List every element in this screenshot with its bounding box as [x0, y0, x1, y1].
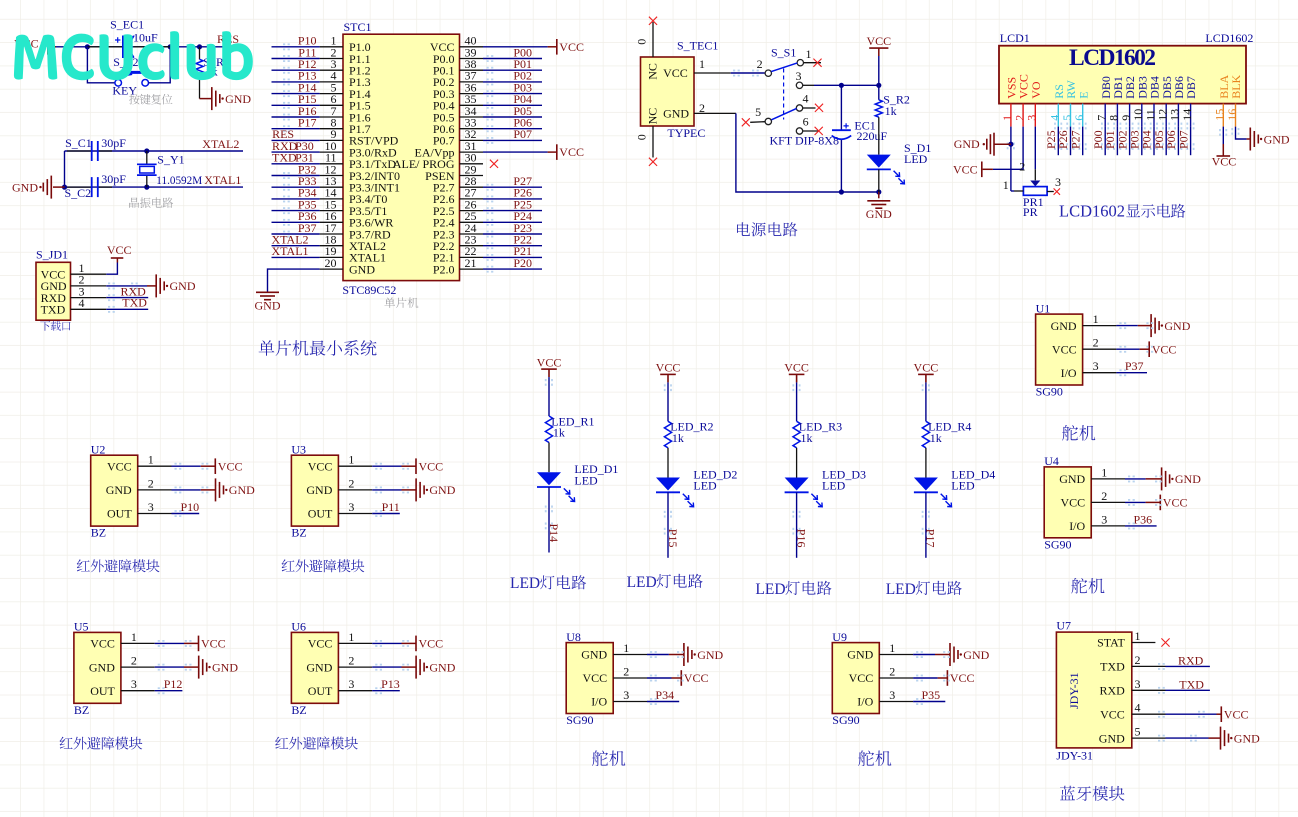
svg-text:GND: GND [697, 648, 723, 662]
erc marks U8 [650, 675, 652, 677]
svg-text:P16: P16 [794, 529, 808, 548]
svg-text:VCC: VCC [218, 459, 243, 473]
svg-text:2: 2 [1101, 489, 1107, 503]
pin 0 bottom (S_TEC1) [652, 126, 654, 158]
pin 2 S_JD1 [71, 285, 107, 287]
svg-text:U4: U4 [1044, 454, 1059, 468]
title 蓝牙模块 [1060, 786, 1124, 801]
erc marks U6 [375, 640, 377, 642]
wire U8 net P34 [647, 701, 679, 703]
svg-text:VCC: VCC [1061, 496, 1086, 510]
svg-text:2: 2 [131, 654, 137, 668]
svg-text:U5: U5 [74, 620, 89, 634]
svg-text:GND: GND [1234, 731, 1260, 745]
ground GND (crystal) [53, 186, 65, 188]
lcd LCD1 body [999, 46, 1246, 104]
svg-text:3: 3 [796, 69, 802, 83]
wire U3 GND [372, 489, 401, 491]
resistor LED_R3 [793, 421, 800, 448]
pin 1 U1 [1083, 325, 1117, 327]
svg-text:VCC: VCC [784, 361, 809, 375]
resistor LED_R1 [545, 416, 552, 443]
wire mcu pin13 net P33 [283, 184, 285, 186]
svg-text:GND: GND [1164, 319, 1190, 333]
wire mcu pin2 net P11 [283, 55, 285, 57]
annotation 单片机 [384, 297, 418, 308]
wire lcd pin10 net P03 [1138, 123, 1140, 125]
wire mcu net P21 [487, 254, 489, 256]
svg-text:LCD1: LCD1 [1000, 31, 1030, 45]
pin 3 U1 [1083, 372, 1117, 374]
pin 2 U5 [121, 666, 155, 668]
no-connect X s_s1 pin1 [813, 59, 821, 67]
svg-text:VO: VO [1029, 81, 1043, 99]
wire mcu pin1 net P10 [283, 43, 285, 45]
wire mcu pin14 net P34 [283, 196, 285, 198]
pin 1 U5 [121, 642, 155, 644]
resistor S_R2 [875, 100, 882, 117]
wire mcu net P04 [487, 102, 489, 104]
svg-text:P07: P07 [1176, 130, 1190, 149]
wire lcd pin11 net P04 [1150, 123, 1152, 125]
svg-text:1k: 1k [930, 431, 942, 445]
svg-text:VCC: VCC [663, 66, 688, 80]
wire mcu pin31 VCC [483, 151, 548, 153]
title 红外避障模块 (U5) [60, 737, 143, 750]
title 舵机 (U9) [858, 751, 891, 767]
pin 4 U7 [1132, 713, 1166, 715]
mcu pin 25 line [460, 221, 484, 223]
wire lcd pin5 net P26 [1066, 123, 1068, 125]
lcd pin 16 stub [1235, 104, 1237, 127]
title 舵机 (U8) [592, 751, 625, 767]
wire mcu net P00 [487, 55, 489, 57]
resistor LED_R2 [664, 421, 671, 448]
connector S_TEC1 body [641, 57, 695, 126]
mcu pin 15 line [320, 210, 343, 212]
svg-text:JDY-31: JDY-31 [1067, 672, 1081, 709]
svg-text:2: 2 [889, 665, 895, 679]
lcd pin 6 stub [1082, 104, 1084, 127]
pin 2 S_TEC1 [694, 112, 736, 114]
wire lcd pin13 net P06 [1174, 123, 1176, 125]
wire vcc to LED_R2 [664, 384, 666, 386]
wire XTAL2 row [65, 150, 244, 152]
wire JD1 pin3 RXD [108, 294, 110, 296]
mcu pin 12 line [320, 175, 343, 177]
svg-text:P10: P10 [181, 500, 200, 514]
svg-text:11.0592M: 11.0592M [156, 175, 202, 187]
svg-text:GND: GND [1051, 319, 1077, 333]
pin 1 U2 [138, 465, 172, 467]
svg-text:4: 4 [1135, 701, 1141, 715]
svg-text:SG90: SG90 [1044, 537, 1071, 551]
junction C3 [839, 189, 844, 194]
crystal S_Y1 [146, 151, 148, 164]
svg-text:I/O: I/O [1069, 519, 1085, 533]
wire mcu net P26 [487, 196, 489, 198]
wire lcd pin8 net P01 [1113, 123, 1115, 125]
svg-text:P2.0: P2.0 [433, 262, 455, 276]
svg-text:3: 3 [348, 677, 354, 691]
svg-text:S_C1: S_C1 [65, 136, 92, 150]
svg-text:NC: NC [645, 108, 659, 125]
svg-text:GND: GND [170, 279, 196, 293]
mcu pin 1 line [320, 46, 343, 48]
wire U7 GND [1166, 737, 1209, 739]
svg-text:LCD1602: LCD1602 [1205, 31, 1253, 45]
wire mcu pin12 net P32 [283, 172, 285, 174]
svg-text:GND: GND [89, 660, 115, 674]
wire vcc to LED_R3 [792, 384, 794, 386]
svg-text:1: 1 [806, 47, 812, 61]
svg-text:1k: 1k [553, 426, 565, 440]
svg-text:6: 6 [803, 115, 809, 129]
wire tec pin1 to switch [733, 70, 735, 72]
svg-text:TXD: TXD [41, 303, 66, 317]
wire U2 VCC [172, 465, 201, 467]
svg-text:LED: LED [574, 473, 598, 487]
pin 2 U6 [338, 666, 372, 668]
svg-text:OUT: OUT [107, 507, 132, 521]
mcu pin 35 line [460, 104, 484, 106]
wire LED_D2 net P15 [664, 511, 666, 513]
wire RES net top rail [56, 46, 240, 48]
wire mcu pin5 net P14 [283, 90, 285, 92]
mcu pin 24 line [460, 233, 484, 235]
svg-text:220uF: 220uF [857, 129, 888, 143]
capacitor S_EC1 [87, 46, 123, 48]
svg-text:VCC: VCC [419, 459, 444, 473]
svg-text:RXD: RXD [1178, 653, 1204, 667]
svg-text:E: E [1076, 91, 1090, 98]
svg-text:VCC: VCC [1212, 154, 1237, 168]
lcd pin 5 stub [1070, 104, 1072, 127]
svg-text:TXD: TXD [122, 296, 147, 310]
lcd pin 13 stub [1177, 104, 1179, 127]
erc marks U9 [916, 675, 918, 677]
wire r2 to led [878, 117, 880, 154]
wire JD1 pin4 TXD [108, 306, 110, 308]
svg-text:GND: GND [106, 483, 132, 497]
connector S_JD1 body [36, 262, 71, 320]
svg-text:GND: GND [429, 483, 455, 497]
erc marks U2 [175, 463, 177, 465]
lcd pin 15 stub [1222, 104, 1224, 127]
mcu pin 26 line [460, 210, 484, 212]
title 红外避障模块 (U2) [77, 559, 160, 572]
svg-text:1: 1 [348, 453, 354, 467]
svg-text:GND: GND [225, 92, 251, 106]
svg-text:P31: P31 [295, 151, 314, 165]
diode LED_D3 LED [785, 478, 809, 491]
svg-text:2: 2 [623, 665, 629, 679]
mcu pin 31 line [460, 151, 484, 153]
resistor LED_R4 [922, 421, 929, 448]
wire mcu RXD P30 [272, 151, 320, 153]
svg-text:3: 3 [148, 500, 154, 514]
wire lcd pin14 net P07 [1186, 123, 1188, 125]
pin 5 U7 [1132, 737, 1166, 739]
pin 3 U6 [338, 690, 372, 692]
wire mcu XTAL2 net [272, 245, 320, 247]
wire U6 net P13 [372, 690, 400, 692]
svg-text:GND: GND [1099, 731, 1125, 745]
svg-text:OUT: OUT [308, 507, 333, 521]
module U9 body [832, 643, 879, 714]
wire crystal left vertical [64, 151, 66, 187]
power VCC (LED_R3) [789, 373, 805, 375]
svg-text:LCD1602: LCD1602 [1069, 45, 1156, 71]
pin 2 U8 [613, 677, 647, 679]
junction C2 [876, 83, 881, 88]
title 舵机 (U1) [1062, 425, 1095, 441]
module U6 body [291, 632, 338, 703]
svg-text:S_TEC1: S_TEC1 [677, 38, 718, 52]
svg-text:P07: P07 [513, 127, 532, 141]
svg-text:OUT: OUT [90, 684, 115, 698]
wire mcu pin4 net P13 [283, 79, 285, 81]
wire mcu pin6 net P15 [283, 102, 285, 104]
pin 3 U3 [338, 513, 372, 515]
svg-text:P14: P14 [547, 524, 561, 543]
pin 2 U2 [138, 489, 172, 491]
svg-text:GND: GND [212, 660, 238, 674]
mcu pin 38 line [460, 69, 484, 71]
svg-text:VCC: VCC [583, 671, 608, 685]
wire JD1 pin2 to GND [108, 283, 110, 285]
mcu pin 17 line [320, 233, 343, 235]
svg-text:3: 3 [1101, 512, 1107, 526]
svg-text:I/O: I/O [1061, 366, 1077, 380]
svg-text:1: 1 [623, 641, 629, 655]
title 红外避障模块 (U3) [282, 559, 365, 572]
wire LED_R2 to LED_D2 [667, 448, 669, 478]
wire mcu net P07 [487, 137, 489, 139]
lcd pin 11 stub [1153, 104, 1155, 127]
svg-text:TYPEC: TYPEC [667, 126, 705, 140]
svg-text:XTAL2: XTAL2 [202, 137, 239, 151]
wire U9 VCC [913, 677, 938, 679]
svg-text:GND: GND [954, 137, 980, 151]
mcu pin 4 line [320, 81, 343, 83]
svg-text:P37: P37 [1125, 359, 1144, 373]
title 电源电路 [737, 222, 797, 236]
svg-text:GND: GND [306, 660, 332, 674]
wire pin3 rail [803, 84, 814, 86]
svg-text:0: 0 [635, 39, 649, 45]
diode LED_D2 LED [656, 478, 680, 491]
pin 1 S_TEC1 [694, 72, 731, 74]
ground GND (lcd) [994, 143, 1011, 145]
svg-text:5: 5 [1135, 725, 1141, 739]
pin 3 U8 [613, 701, 647, 703]
wire U7 TXD [1166, 689, 1210, 691]
wire mcu pin8 net P17 [283, 125, 285, 127]
wire U3 VCC [372, 465, 401, 467]
wire mcu net P03 [487, 90, 489, 92]
svg-text:GND: GND [1264, 132, 1290, 146]
wire mcu pin7 net P16 [283, 114, 285, 116]
module U5 body [74, 632, 121, 703]
wire mcu pin17 net P37 [283, 231, 285, 233]
svg-text:OUT: OUT [308, 684, 333, 698]
svg-text:GND: GND [255, 298, 281, 312]
svg-text:16: 16 [1225, 109, 1239, 121]
mcu pin 9 line [320, 139, 343, 141]
pin 1 U6 [338, 642, 372, 644]
mcu pin 13 line [320, 186, 343, 188]
pin 3 S_JD1 [71, 297, 107, 299]
wire lcd pin3 to wiper [1034, 127, 1036, 170]
lcd pin 14 stub [1190, 104, 1192, 127]
svg-text:VCC: VCC [849, 671, 874, 685]
wire U5 GND [155, 666, 184, 668]
title 舵机 (U4) [1071, 578, 1104, 594]
mcu pin 20 line [320, 268, 343, 270]
svg-text:3: 3 [1025, 115, 1039, 121]
module U3 body [291, 455, 338, 526]
wire mcu net P05 [487, 114, 489, 116]
wire U8 GND [647, 654, 669, 656]
svg-text:1: 1 [699, 57, 705, 71]
svg-text:P17: P17 [924, 529, 938, 548]
svg-text:4: 4 [803, 92, 809, 106]
svg-text:3: 3 [348, 500, 354, 514]
mcu pin 27 line [460, 198, 484, 200]
pin 1 U4 [1091, 478, 1125, 480]
svg-text:LED: LED [904, 152, 928, 166]
module U2 body [91, 455, 138, 526]
svg-text:VCC: VCC [559, 145, 584, 159]
wire LED_R3 to LED_D3 [796, 448, 798, 478]
svg-text:P35: P35 [922, 688, 941, 702]
svg-text:BZ: BZ [91, 526, 106, 540]
lcd pin 9 stub [1129, 104, 1131, 127]
mcu pin 19 line [320, 256, 343, 258]
wire lcd pin12 net P05 [1162, 123, 1164, 125]
pin 1 S_JD1 [71, 273, 107, 275]
wire U5 VCC [155, 642, 184, 644]
wire lcd pin2 to VCC [993, 127, 1023, 170]
module U1 body [1036, 314, 1083, 385]
wire U3 net P11 [372, 513, 400, 515]
mcu pin 23 line [460, 245, 484, 247]
svg-text:4: 4 [79, 296, 85, 310]
svg-text:P15: P15 [666, 529, 680, 548]
svg-text:XTAL1: XTAL1 [272, 244, 309, 258]
no-connect X pin30 [490, 160, 498, 168]
svg-text:2: 2 [1135, 653, 1141, 667]
svg-text:30pF: 30pF [101, 136, 126, 150]
svg-text:1: 1 [1093, 312, 1099, 326]
svg-text:VCC: VCC [107, 459, 132, 473]
mcu pin 22 line [460, 256, 484, 258]
label 下载口 [40, 321, 70, 331]
erc marks U3 [375, 463, 377, 465]
power VCC (LED_R4) [918, 373, 934, 375]
wire lcd pin1 down [1007, 143, 1009, 145]
svg-text:2: 2 [348, 654, 354, 668]
lcd pin 3 stub [1034, 104, 1036, 127]
wire lcd pin15 to VCC [1219, 129, 1221, 131]
svg-text:VCC: VCC [1100, 707, 1125, 721]
svg-text:P36: P36 [1134, 512, 1153, 526]
svg-text:VCC: VCC [914, 361, 939, 375]
svg-text:SG90: SG90 [566, 713, 593, 727]
svg-text:1: 1 [1135, 629, 1141, 643]
svg-text:U3: U3 [291, 442, 306, 456]
svg-text:U2: U2 [91, 442, 106, 456]
capacitor S_C1 [67, 150, 92, 152]
wire LED_R1 to LED_D1 [548, 443, 550, 473]
mcu pin 16 line [320, 221, 343, 223]
logo MCUclub [14, 31, 253, 80]
wire mcu net P06 [487, 125, 489, 127]
svg-text:1: 1 [348, 630, 354, 644]
pin 3 U4 [1091, 525, 1125, 527]
wire pr1 pin3 [1047, 191, 1054, 193]
svg-text:GND: GND [429, 660, 455, 674]
svg-text:VCC: VCC [419, 637, 444, 651]
mcu pin 40 line [460, 46, 484, 48]
svg-text:30pF: 30pF [101, 172, 126, 186]
svg-text:VCC: VCC [656, 361, 681, 375]
svg-text:1: 1 [1101, 465, 1107, 479]
wire U6 GND [372, 666, 401, 668]
svg-text:2: 2 [1093, 336, 1099, 350]
wire mcu net P22 [487, 242, 489, 244]
svg-text:VCC: VCC [201, 637, 226, 651]
power VCC (LED_R1) [541, 368, 557, 370]
svg-text:KEY: KEY [112, 84, 137, 98]
lcd pin 2 stub [1022, 104, 1024, 127]
no-connect X s_s1 pin5 [742, 118, 750, 126]
no-connect X U7 pin1 [1161, 638, 1169, 646]
erc marks U7 [1158, 663, 1160, 665]
wire LED_R4 to LED_D4 [925, 448, 927, 478]
svg-text:P11: P11 [382, 500, 400, 514]
no-connect X top [649, 17, 657, 25]
svg-text:3: 3 [131, 677, 137, 691]
svg-text:GND: GND [963, 648, 989, 662]
svg-text:2: 2 [348, 476, 354, 490]
capacitor S_C2 [67, 186, 92, 188]
svg-text:BZ: BZ [291, 526, 306, 540]
mcu pin 39 line [460, 58, 484, 60]
wire XTAL1 row [65, 186, 244, 188]
svg-text:LED: LED [755, 581, 785, 598]
lcd pin 7 stub [1104, 104, 1106, 127]
svg-text:P12: P12 [164, 677, 183, 691]
mcu pin 2 line [320, 58, 343, 60]
svg-text:1k: 1k [801, 431, 813, 445]
wire switch branch left [87, 47, 114, 83]
switch S_S1 lower half [765, 118, 771, 124]
svg-text:P34: P34 [655, 688, 674, 702]
svg-text:S_S1: S_S1 [771, 46, 796, 60]
svg-text:BZ: BZ [291, 703, 306, 717]
svg-text:VCC: VCC [950, 671, 975, 685]
svg-text:I/O: I/O [591, 695, 607, 709]
diode S_D1 LED [867, 155, 891, 168]
svg-text:STC1: STC1 [344, 20, 372, 34]
wire LED_D1 net P14 [545, 506, 547, 508]
no-connect X bottom [649, 158, 657, 166]
pin 1 U9 [879, 654, 913, 656]
lcd pin 8 stub [1116, 104, 1118, 127]
svg-text:0: 0 [635, 134, 649, 140]
